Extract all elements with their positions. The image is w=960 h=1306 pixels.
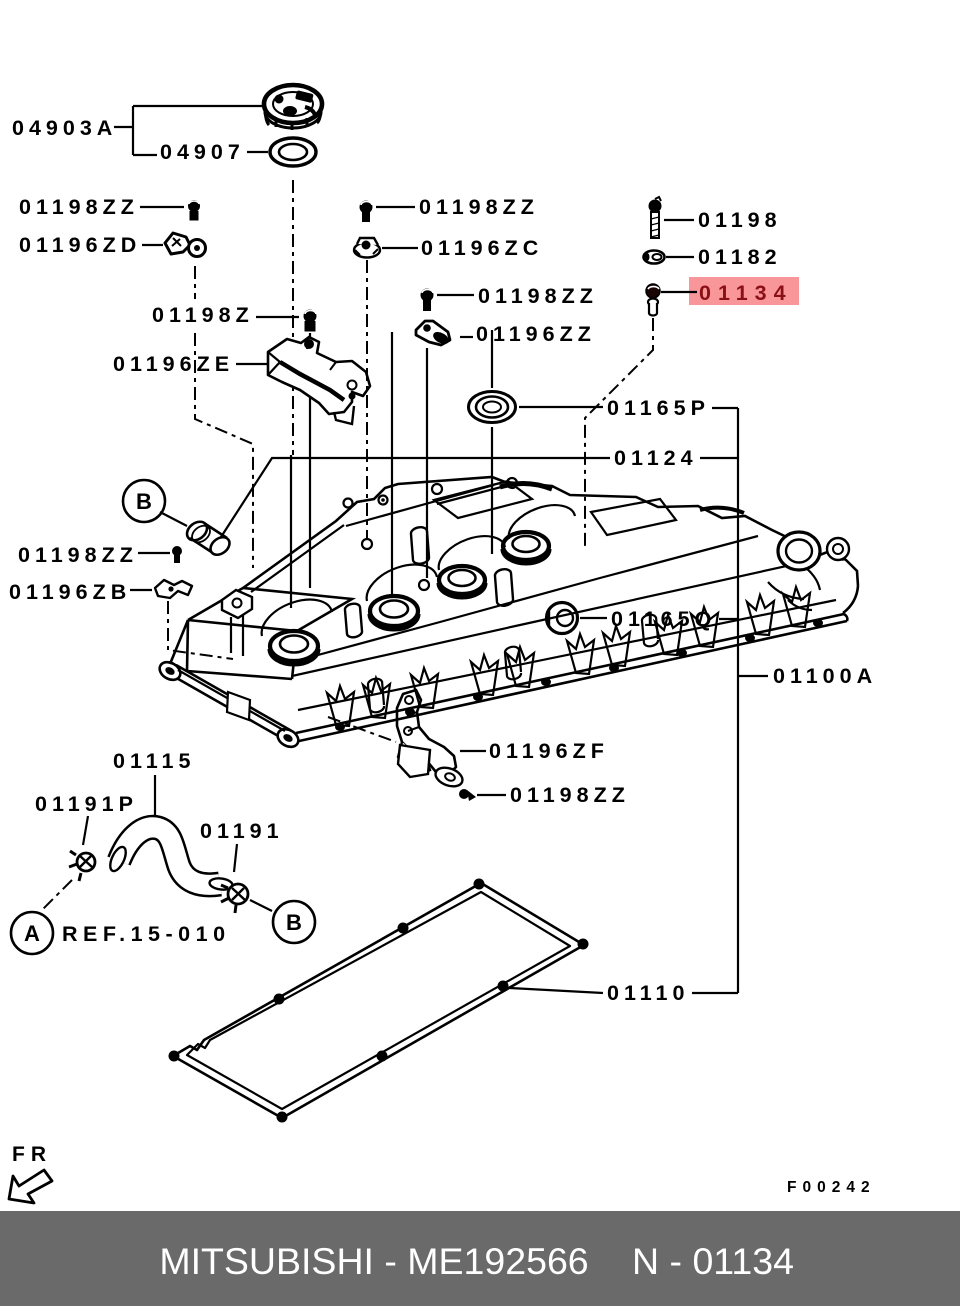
boss stem on block xyxy=(231,615,243,656)
right end port xyxy=(778,532,847,570)
leader xyxy=(477,794,506,796)
rect opening B on top xyxy=(591,499,676,535)
bracket 01196ZE xyxy=(268,337,370,424)
svg-text:01196ZD: 01196ZD xyxy=(19,233,141,257)
svg-text:01165P: 01165P xyxy=(607,396,710,420)
clamp 01191 xyxy=(221,884,248,913)
leader 01182 xyxy=(666,256,694,258)
leader clamp to B xyxy=(250,900,272,911)
svg-text:B: B xyxy=(136,489,152,514)
clamp 01191P xyxy=(69,851,95,881)
leader 01196ZF xyxy=(460,750,486,752)
svg-text:01115: 01115 xyxy=(113,749,195,773)
small nut targets on top face xyxy=(362,478,517,590)
cover right end xyxy=(843,586,858,613)
rect opening A on top xyxy=(434,481,532,518)
svg-text:01196ZC: 01196ZC xyxy=(421,236,543,260)
mid wall line xyxy=(298,600,836,710)
cover back ridge xyxy=(243,477,858,588)
svg-text:01196ZE: 01196ZE xyxy=(113,352,234,376)
top face front edge xyxy=(292,563,820,676)
right end lower curves xyxy=(768,582,812,610)
ridge parallel line xyxy=(251,485,494,592)
leader xyxy=(236,363,271,365)
svg-text:04903A: 04903A xyxy=(12,116,117,140)
svg-text:01196ZB: 01196ZB xyxy=(9,580,131,604)
leader 01191 xyxy=(234,844,237,872)
stud cylinder on wall 2 xyxy=(505,647,521,680)
gasket 01110 inner xyxy=(187,892,570,1109)
svg-text:A: A xyxy=(24,921,40,946)
svg-text:MITSUBISHI - ME192566: MITSUBISHI - ME192566 xyxy=(159,1240,588,1282)
svg-text:N - 01134: N - 01134 xyxy=(632,1240,794,1282)
nut 01196ZC xyxy=(354,238,380,258)
bolt 01198ZZ bottom xyxy=(459,789,476,801)
svg-text:01198ZZ: 01198ZZ xyxy=(419,195,539,219)
leader xyxy=(382,247,418,249)
svg-text:F00242: F00242 xyxy=(787,1179,876,1196)
leader 04907 xyxy=(247,151,268,153)
washer 01182 xyxy=(644,251,665,264)
leader B to tube xyxy=(160,512,187,526)
svg-text:01191: 01191 xyxy=(200,819,284,843)
highlight box 01134 xyxy=(689,277,799,305)
leader 01134 xyxy=(661,291,697,293)
bolt 01198ZZ small xyxy=(172,546,182,563)
leader xyxy=(437,294,474,296)
bracket leader 04903A xyxy=(114,106,262,155)
dash line from 01134 to cover xyxy=(585,318,653,550)
leader 01115 xyxy=(154,775,156,818)
leader 01191P xyxy=(83,816,88,845)
dash from clamp to A xyxy=(42,880,72,910)
svg-text:REF.15-010: REF.15-010 xyxy=(62,922,231,946)
gasket grommets xyxy=(169,879,589,1123)
right end small ring xyxy=(827,538,849,560)
clip 01196ZD xyxy=(165,233,206,257)
svg-text:B: B xyxy=(286,910,302,935)
cover top-left face xyxy=(188,588,352,631)
bolt 01198ZZ xyxy=(188,200,200,220)
svg-text:FR: FR xyxy=(12,1143,52,1166)
leader xyxy=(140,206,184,208)
big curve over tube 4 xyxy=(509,505,575,539)
bolt 01198 long xyxy=(649,197,662,238)
mount lug below flange xyxy=(398,745,430,777)
gasket ring 04907 xyxy=(270,138,316,166)
seal 01165P xyxy=(469,392,516,423)
leader xyxy=(256,316,299,318)
fork clips along flange xyxy=(327,587,810,726)
bolt line into cover xyxy=(309,333,311,588)
svg-text:01191P: 01191P xyxy=(35,792,138,816)
svg-text:01196ZZ: 01196ZZ xyxy=(476,322,596,346)
bolt 01198ZZ row2 xyxy=(360,201,373,223)
svg-text:01198ZZ: 01198ZZ xyxy=(18,543,138,567)
leader xyxy=(460,336,473,338)
leader xyxy=(130,589,152,591)
svg-text:04907: 04907 xyxy=(160,140,245,164)
svg-text:01196ZF: 01196ZF xyxy=(489,739,609,763)
circle A xyxy=(11,912,53,954)
svg-text:01110: 01110 xyxy=(607,981,689,1005)
svg-text:01198: 01198 xyxy=(698,208,782,232)
bracket 01196ZF xyxy=(397,690,465,790)
extra small nuts near back xyxy=(344,499,353,508)
circle B top xyxy=(123,480,165,522)
leader 01165Q xyxy=(580,617,607,619)
centerline from cap to cover xyxy=(292,180,294,455)
big curve over tube 1 xyxy=(262,600,332,636)
svg-text:01100A: 01100A xyxy=(773,664,877,688)
stud cylinder on wall 1 xyxy=(368,679,384,713)
dash leader from clip 01196ZD xyxy=(194,266,196,299)
bolt 01198ZZ row3 xyxy=(421,289,434,312)
svg-text:01134: 01134 xyxy=(699,281,793,305)
breather tube stub xyxy=(183,518,232,558)
big curve over tube 2 xyxy=(367,565,437,601)
bolt 01198Z xyxy=(304,310,317,332)
leader 01110 xyxy=(510,988,603,993)
svg-text:01198ZZ: 01198ZZ xyxy=(19,195,139,219)
leader xyxy=(142,244,163,246)
boss on block top xyxy=(222,590,252,618)
leader xyxy=(376,206,415,208)
leader 01198 xyxy=(664,219,694,221)
big curve over tube 3 xyxy=(439,536,505,570)
svg-text:01198ZZ: 01198ZZ xyxy=(478,284,598,308)
front flange double rail xyxy=(296,614,847,741)
bolt towers on top face xyxy=(345,527,513,637)
svg-text:01182: 01182 xyxy=(698,245,782,269)
bracket tick 01165P xyxy=(712,407,738,409)
tube ring R1 xyxy=(270,631,318,664)
stud cylinder on wall 3 xyxy=(642,615,658,647)
flange bolt bumps xyxy=(335,619,823,731)
oil filler cap 04903A xyxy=(264,85,322,130)
bolt lines into cover xyxy=(426,348,428,578)
tube ring R2 xyxy=(370,596,418,629)
svg-text:01124: 01124 xyxy=(614,446,698,470)
tube ring R4 xyxy=(503,532,549,563)
hose 01115 xyxy=(107,827,233,891)
bottom left rail xyxy=(156,659,301,751)
svg-text:01198ZZ: 01198ZZ xyxy=(510,783,630,807)
tube ring R3 xyxy=(439,566,485,597)
left edge xyxy=(170,620,188,664)
leader xyxy=(138,552,170,554)
seal cap 01165Q xyxy=(547,603,578,634)
dash line from 01196ZC to cover xyxy=(366,260,368,538)
dash from cover to 01196ZF xyxy=(328,717,396,742)
assembly bracket line 01100A xyxy=(737,408,739,993)
FR arrow xyxy=(9,1170,52,1203)
svg-text:01198Z: 01198Z xyxy=(152,303,254,327)
bolt 01134 xyxy=(646,284,660,316)
clip 01196ZB xyxy=(155,580,192,598)
dark shade arcs near back xyxy=(500,483,552,489)
top face front edge xyxy=(292,536,758,662)
circle B bottom xyxy=(273,901,315,943)
leader 01165P xyxy=(519,406,603,408)
rocker cover 01100A outline xyxy=(187,620,297,679)
leader 01124 long xyxy=(221,458,610,537)
dash leader from 01196ZB xyxy=(168,601,233,659)
footer bar xyxy=(0,1211,960,1306)
plate 01196ZZ xyxy=(416,321,451,346)
gasket 01110 outer xyxy=(173,883,584,1118)
